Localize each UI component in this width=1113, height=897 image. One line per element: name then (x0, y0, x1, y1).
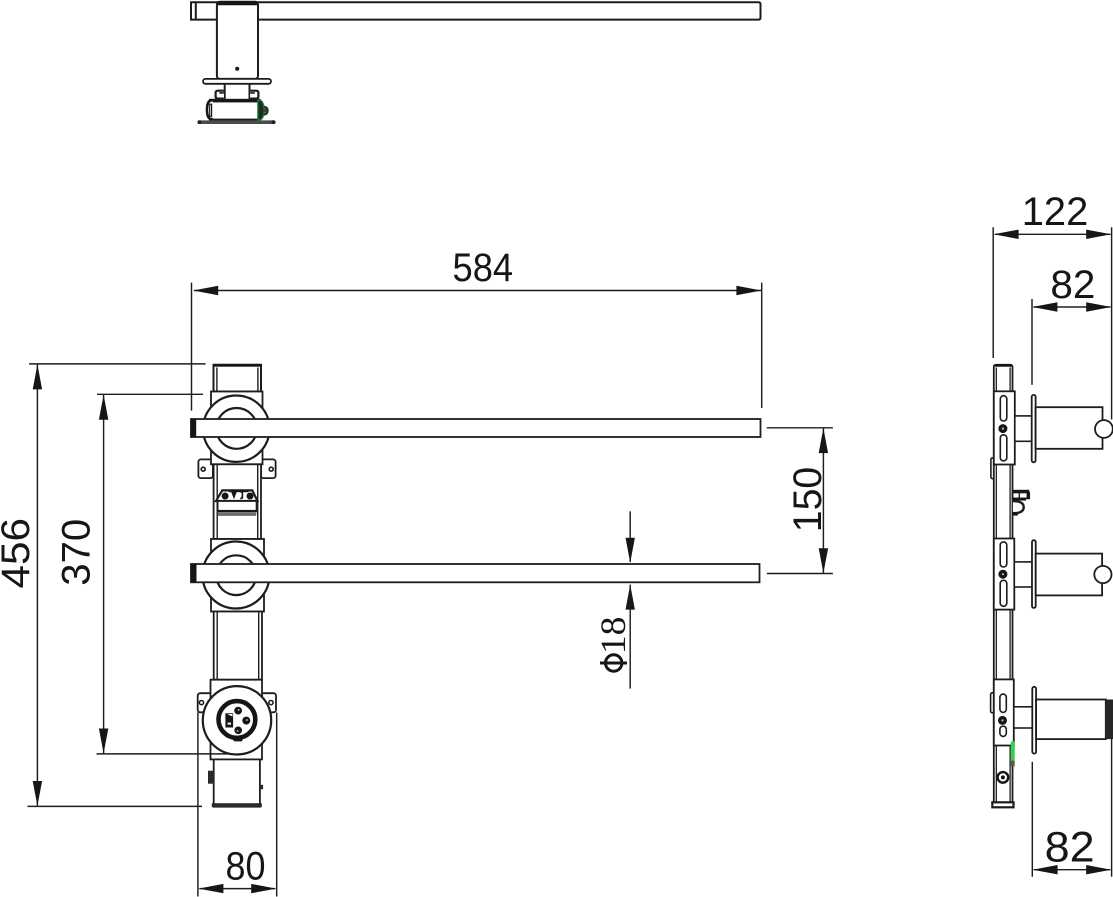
front bottom circle (203, 686, 271, 754)
side bracket 3 (994, 679, 1014, 745)
side plate inner line right (1009, 368, 1011, 806)
svg-text:18: 18 (593, 617, 633, 655)
front socket ring (thick black) (219, 701, 256, 738)
front towel bar 1 (191, 419, 761, 437)
dim phi18 arrow upper (626, 538, 635, 563)
dim 80 arrow right (251, 884, 276, 893)
front towel bar 2 (191, 564, 760, 582)
top-view hanger stem right (249, 84, 251, 99)
dim 150 arrow bottom (819, 548, 828, 573)
side plate bottom foot (992, 802, 1013, 807)
side clip foot (1013, 512, 1018, 516)
front valve lower box thick bottom (218, 510, 257, 513)
front valve lower box (218, 501, 257, 511)
side bracket 1 screw (998, 424, 1007, 433)
dim 122 arrow right (1086, 230, 1111, 239)
front housing left protrusion (208, 771, 214, 784)
front escutcheon circle 2 outer (203, 542, 270, 609)
front escutcheon circle 1 inner (216, 408, 257, 449)
side cylinder 1 (1036, 407, 1103, 449)
front top box inner lines (216, 368, 218, 392)
top-view clip left notch (219, 92, 224, 94)
dim 370 line (103, 395, 105, 754)
side spacer 3 (1014, 707, 1033, 728)
front escutcheon circle 1 outer (203, 396, 269, 462)
svg-text:456: 456 (0, 518, 38, 589)
dim 584 extension line right (761, 283, 763, 408)
top-view base plate end dots (198, 120, 202, 124)
front mounting wing right (lower) (252, 693, 276, 712)
dim 150 extension line top (767, 427, 833, 429)
front valve screw right (247, 493, 254, 500)
side spacer 2 (1014, 562, 1032, 587)
side clip step band (1013, 498, 1026, 501)
dim 456 text (0, 518, 38, 589)
dim 82 top line (1034, 306, 1111, 308)
side green indicator bar (1011, 741, 1015, 760)
front mounting wing left (lower) (198, 693, 222, 712)
dim 370 arrow top (99, 395, 108, 420)
dim 456 arrow bottom (33, 781, 42, 806)
side plate inner line left (995, 368, 997, 806)
side clip box dark right end (1027, 492, 1030, 499)
front towel bar 1 dark cap (191, 419, 196, 437)
dim 584 arrow left (193, 286, 218, 295)
side clip top bar (1013, 490, 1030, 493)
dim 82 bottom arrow right (1086, 865, 1111, 874)
side bracket 3 slot lower (1000, 726, 1006, 736)
top-view roller top band (dark) (210, 100, 260, 103)
dim 370 text (55, 519, 99, 586)
front socket pin right (242, 717, 250, 725)
dim 122 arrow left (994, 230, 1019, 239)
side plate top dark edge (994, 364, 1012, 367)
dim 82 bottom arrow left (1033, 865, 1058, 874)
front wing hole left lower (199, 701, 203, 705)
dim 80 extension line right (276, 713, 278, 897)
top-view clip right notch (250, 92, 255, 94)
side bracket 2 screw (998, 570, 1007, 579)
dim 82 bottom extension line left (1031, 762, 1033, 877)
side cylinder 3 (1036, 700, 1106, 740)
dim 456 extension line bottom (28, 805, 203, 807)
dim 82 top arrow left (1032, 302, 1057, 311)
svg-text:370: 370 (55, 519, 99, 586)
side clip box (1013, 493, 1030, 499)
front socket ring bottom nub (234, 738, 243, 741)
side clip hook (1013, 501, 1024, 513)
top-view post top cap (dark) (217, 1, 258, 5)
side flange 1 (1032, 395, 1036, 462)
svg-text:82: 82 (1050, 263, 1095, 307)
dim 82 top extension line left (1031, 299, 1033, 385)
dim 584 arrow right (736, 286, 761, 295)
front sleeve 3 (211, 680, 263, 760)
dim 150 arrow top (819, 428, 828, 453)
top-view hanger stem left (224, 84, 226, 99)
front lower housing (214, 759, 260, 806)
front escutcheon circle 2 inner (216, 555, 256, 595)
dim 456 arrow top (33, 364, 42, 389)
dim phi18 leader upper (629, 511, 631, 562)
dim 370 extension line bottom (97, 753, 233, 755)
front housing right nub (260, 785, 263, 789)
top-view post screw dot (235, 67, 239, 71)
front wing hole left upper (201, 467, 205, 471)
side wing 3 edge-on (991, 693, 995, 713)
side bracket 3 slot upper (1000, 694, 1006, 712)
side wing 1 edge-on (991, 458, 994, 479)
svg-text:80: 80 (226, 845, 266, 889)
front mounting wing right (upper) (261, 459, 276, 478)
front socket key block (225, 713, 233, 727)
side cylinder 2 (1036, 554, 1102, 596)
svg-text:584: 584 (453, 246, 514, 290)
side clip box divider (1018, 493, 1020, 499)
top-view clip left (216, 91, 224, 99)
front sleeve 1 (211, 392, 263, 465)
front mounting wing left (upper) (198, 459, 213, 478)
side bracket 1 slot upper (1000, 396, 1007, 421)
top-view roller right bump (264, 107, 268, 115)
side spacer 1 (1015, 416, 1032, 441)
svg-text:150: 150 (786, 467, 830, 533)
top-view wall post body (217, 2, 258, 79)
dim 150 extension line bottom (767, 573, 833, 575)
dim 150 line (822, 428, 824, 573)
top-view roller right cap (dark green) (258, 100, 264, 120)
side bottom screw (998, 772, 1009, 783)
front column segment B (214, 612, 262, 680)
top-view roller left cap (207, 100, 213, 119)
dim 370 arrow bottom (99, 729, 108, 754)
top-view bar end cap line (195, 2, 197, 19)
dim 370 extension line top (97, 393, 203, 395)
top-view clip right (250, 91, 258, 99)
side flange 2 (1032, 540, 1036, 608)
side green bar lower dark part (1011, 761, 1015, 767)
front valve label trapezoid (216, 490, 258, 501)
front column top box (214, 365, 262, 392)
svg-text:82: 82 (1045, 823, 1095, 871)
dim phi18 arrow lower (626, 585, 635, 610)
front top box dark top edge (214, 364, 262, 367)
front wing hole right lower (269, 701, 273, 705)
top-view towel bar (191, 2, 761, 19)
front socket pin bottom (234, 727, 242, 735)
dim 80 arrow left (198, 884, 223, 893)
top-view roller body (210, 100, 260, 120)
side flange 3 (1032, 687, 1036, 754)
top-view roller left cap slit (210, 104, 212, 116)
front wing hole right upper (269, 467, 273, 471)
side knob 2 (1094, 566, 1111, 583)
side knob 1 (1095, 420, 1113, 438)
front housing bottom thick edge (212, 803, 262, 807)
side wall plate (994, 365, 1013, 807)
side bracket 2 (994, 539, 1015, 610)
dim 82 top arrow right (1086, 302, 1111, 311)
front column segment A (214, 464, 261, 539)
front valve screw left (222, 493, 229, 500)
svg-text:122: 122 (1022, 190, 1089, 234)
side bracket 1 (994, 391, 1015, 464)
side bracket 2 slot lower (1000, 580, 1007, 606)
dim 82 bottom line (1034, 869, 1110, 871)
front valve gray band (218, 513, 256, 516)
side bracket 2 slot upper (1000, 542, 1007, 567)
dim 80 line (199, 888, 275, 890)
dim 584 line (194, 290, 761, 292)
dim 584 extension line left (191, 283, 193, 411)
dim 456 line (36, 365, 38, 806)
front towel bar 2 dark cap (191, 564, 197, 582)
dim 80 extension line left (197, 713, 199, 897)
dim phi18 leader lower (629, 585, 631, 689)
front sleeve 2 (211, 539, 264, 612)
top-view wall flange plate (203, 79, 271, 84)
dim 150 text (786, 467, 830, 533)
dim 122 line (995, 233, 1110, 235)
dim 82 bottom extension line right (1111, 739, 1113, 877)
dim 456 extension line top (29, 363, 206, 365)
side bracket 3 screw (998, 716, 1007, 725)
top-view base plate (dark stadium) (197, 120, 275, 124)
front socket pin top (234, 707, 242, 715)
side bracket 1 slot lower (1000, 435, 1007, 461)
dim phi18 text (593, 617, 633, 672)
side cylinder 3 dark end cap (1106, 700, 1113, 740)
dim 122 extension line left (992, 227, 994, 358)
top-view roller right maroon dot (263, 109, 267, 113)
dim 122 extension line right (1111, 227, 1113, 419)
front valve glyph block (231, 491, 237, 499)
